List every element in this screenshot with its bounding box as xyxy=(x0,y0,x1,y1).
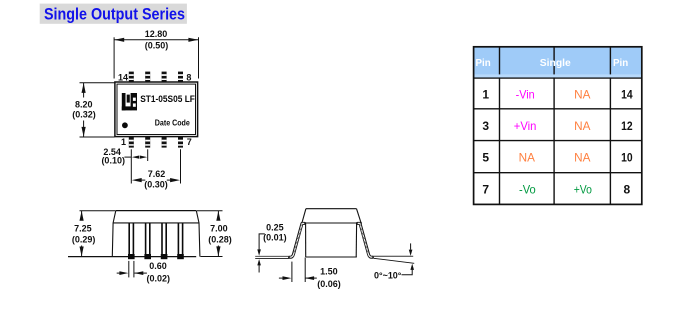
svg-text:7.62: 7.62 xyxy=(148,169,166,179)
dimension 0 to 10 degree lead angle xyxy=(374,243,414,280)
top view pin 14 lead xyxy=(129,72,134,83)
top view pin 7 lead xyxy=(178,137,183,148)
svg-text:Single: Single xyxy=(540,57,571,69)
dimension 12.80 (0.50) width xyxy=(114,29,198,79)
side view left gull-wing lead xyxy=(290,223,305,257)
title text "Single Output Series" xyxy=(44,4,185,23)
row 4 cell +Vo xyxy=(574,183,592,197)
front view seating plane line xyxy=(68,256,196,258)
svg-text:ST1-05S05 LF: ST1-05S05 LF xyxy=(140,94,195,104)
svg-text:0.60: 0.60 xyxy=(149,261,167,271)
svg-text:10: 10 xyxy=(621,151,633,165)
row 2 cell NA xyxy=(574,119,590,133)
row 1 cell NA xyxy=(574,87,590,101)
pin table header background xyxy=(474,47,642,78)
top view pin 13 lead xyxy=(145,72,150,83)
svg-text:(0.02): (0.02) xyxy=(147,273,171,283)
svg-text:(0.30): (0.30) xyxy=(144,180,168,190)
front view lead 1 xyxy=(128,223,135,259)
top view pin 2 lead xyxy=(145,137,150,148)
side view right gull-wing lead xyxy=(358,223,373,257)
seating plane line right xyxy=(372,255,413,257)
row 4 pin numbers xyxy=(482,183,630,197)
front view lead 3 xyxy=(161,223,168,259)
row 1 pin numbers xyxy=(482,87,633,101)
svg-text:Date Code: Date Code xyxy=(155,119,190,128)
header shading strip xyxy=(475,74,641,77)
svg-text:8: 8 xyxy=(624,183,631,197)
dimension 1.50 (0.06) foot length xyxy=(279,258,341,289)
svg-text:0°~10°: 0°~10° xyxy=(374,270,402,280)
row 4 cell -Vo xyxy=(519,183,536,197)
top view package body outline xyxy=(115,82,198,137)
dimension 0.25 (0.01) standoff xyxy=(257,223,286,273)
row 3 cell NA left xyxy=(519,151,535,165)
pin 1 index dot xyxy=(122,122,128,128)
dimension 8.20 (0.32) height xyxy=(72,83,114,137)
svg-text:-Vo: -Vo xyxy=(519,183,536,197)
svg-text:Pin: Pin xyxy=(613,57,628,69)
svg-text:14: 14 xyxy=(118,72,128,82)
svg-text:(0.10): (0.10) xyxy=(101,155,125,165)
header label Single xyxy=(540,57,571,69)
svg-text:NA: NA xyxy=(574,87,590,101)
svg-text:1: 1 xyxy=(482,87,489,101)
dimension 7.25 (0.29) overall height xyxy=(72,211,116,257)
svg-text:8: 8 xyxy=(186,72,191,82)
side view body outline xyxy=(301,209,362,257)
svg-text:+Vo: +Vo xyxy=(574,183,592,197)
svg-text:Pin: Pin xyxy=(476,57,491,69)
front view lead 2 xyxy=(144,223,151,259)
pin table grid xyxy=(474,47,642,205)
dimension 0.60 (0.02) lead width xyxy=(117,261,170,284)
title highlight box xyxy=(40,4,187,24)
svg-text:(0.06): (0.06) xyxy=(317,279,341,289)
row 2 cell +Vin xyxy=(514,119,537,133)
svg-text:8.20: 8.20 xyxy=(75,99,93,109)
svg-text:14: 14 xyxy=(621,87,633,101)
dimension 7.00 (0.28) body height xyxy=(197,211,232,257)
svg-text:7.25: 7.25 xyxy=(74,223,92,233)
svg-text:1.50: 1.50 xyxy=(320,266,338,276)
lead angle reference slanted line xyxy=(374,258,415,263)
seating plane double line left xyxy=(255,256,289,258)
marking logo LB xyxy=(122,93,137,110)
top view pin 8 lead xyxy=(178,72,183,83)
svg-text:12.80: 12.80 xyxy=(145,29,168,39)
svg-text:Single Output Series: Single Output Series xyxy=(44,4,185,23)
row 3 pin numbers xyxy=(482,151,633,165)
svg-text:1: 1 xyxy=(121,137,126,147)
svg-text:3: 3 xyxy=(482,119,489,133)
top view pin 1 lead xyxy=(129,137,134,148)
svg-text:NA: NA xyxy=(574,119,590,133)
svg-text:0.25: 0.25 xyxy=(266,223,284,233)
front view body outline xyxy=(112,211,200,257)
svg-text:+Vin: +Vin xyxy=(514,119,537,133)
dimension 7.62 (0.30) row span xyxy=(132,149,181,189)
row 1 cell -Vin xyxy=(516,87,535,101)
svg-text:(0.50): (0.50) xyxy=(145,40,169,50)
svg-text:NA: NA xyxy=(574,151,590,165)
top view pin 3 lead xyxy=(162,137,167,148)
svg-text:7.00: 7.00 xyxy=(210,223,228,233)
pin number label 7 xyxy=(187,137,192,147)
svg-text:-Vin: -Vin xyxy=(516,87,535,101)
marking text ST1-05S05 LF xyxy=(140,94,195,104)
marking text Date Code xyxy=(155,119,190,128)
pin number label 14 xyxy=(118,72,128,82)
dimension 2.54 (0.10) pin pitch xyxy=(101,147,147,184)
top view pin 12 lead xyxy=(162,72,167,83)
svg-text:(0.01): (0.01) xyxy=(263,233,287,243)
front view lead 4 xyxy=(177,223,184,259)
svg-text:7: 7 xyxy=(187,137,192,147)
pin number label 8 xyxy=(186,72,191,82)
row 2 pin numbers xyxy=(482,119,633,133)
svg-text:(0.28): (0.28) xyxy=(208,235,232,245)
header label Pin right xyxy=(613,57,628,69)
svg-text:5: 5 xyxy=(482,151,489,165)
header label Pin left xyxy=(476,57,491,69)
svg-text:(0.32): (0.32) xyxy=(72,110,96,120)
svg-text:NA: NA xyxy=(519,151,535,165)
svg-text:12: 12 xyxy=(621,119,633,133)
pin number label 1 xyxy=(121,137,126,147)
row 3 cell NA right xyxy=(574,151,590,165)
svg-text:(0.29): (0.29) xyxy=(72,235,96,245)
svg-text:7: 7 xyxy=(482,183,489,197)
